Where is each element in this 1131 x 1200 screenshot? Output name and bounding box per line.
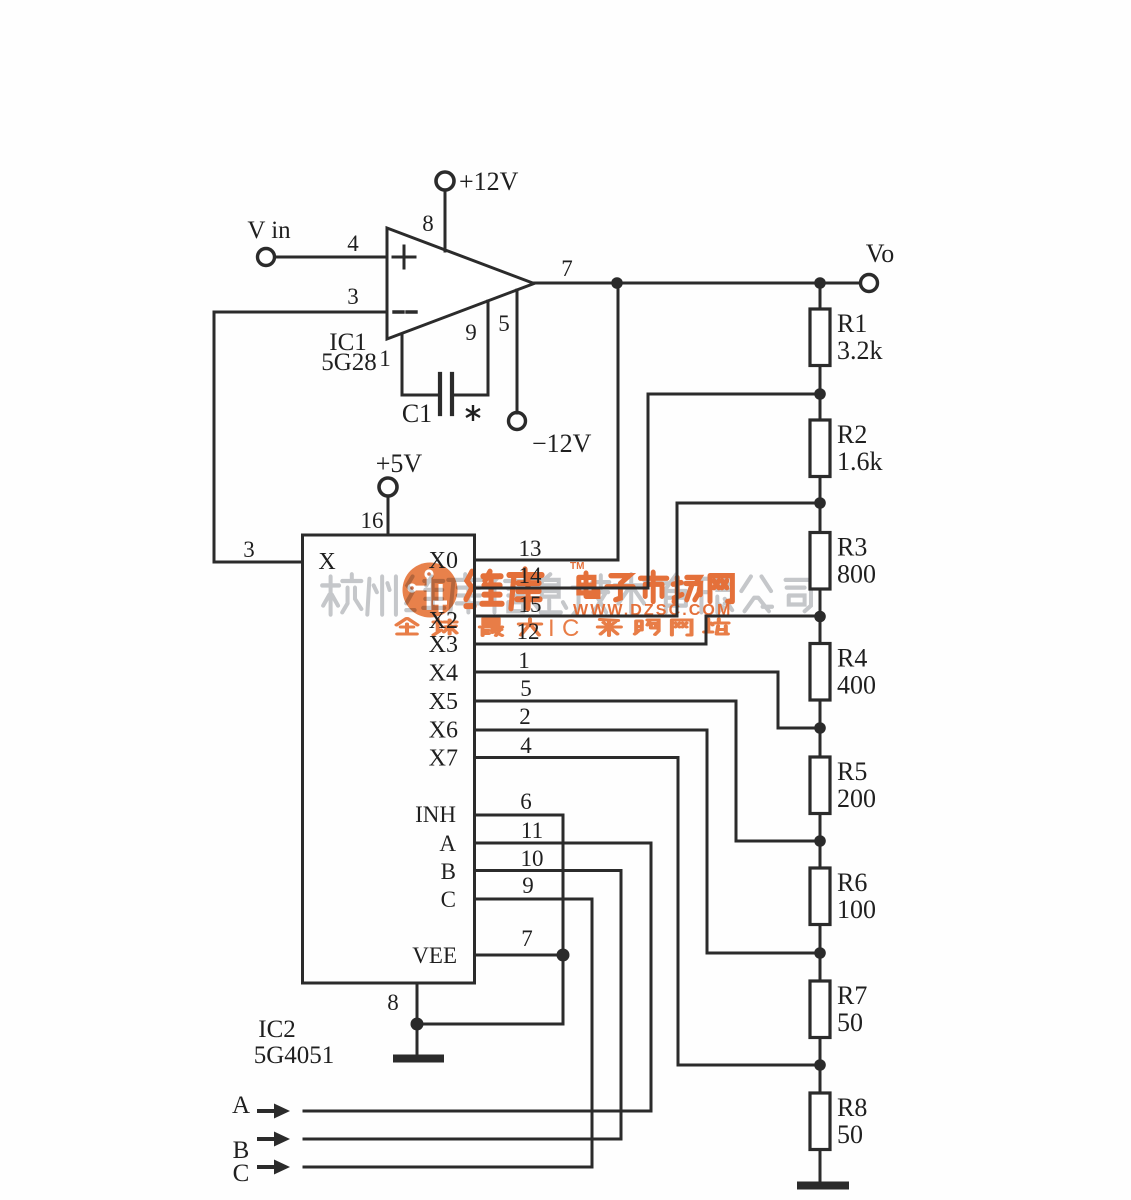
wire X3 pin12 to R3-R4 node (475, 616, 816, 644)
svg-text:3: 3 (347, 284, 359, 309)
svg-text:7: 7 (561, 256, 573, 281)
resistor R8 (810, 1093, 830, 1150)
svg-text:C1: C1 (402, 399, 432, 428)
ground symbol IC2 (397, 1055, 440, 1063)
svg-text:+5V: +5V (376, 449, 423, 478)
terminal -12V (509, 413, 526, 430)
svg-text:5: 5 (498, 311, 510, 336)
svg-text:C: C (441, 887, 456, 912)
wire X4 pin1 to R4-R5 node (475, 672, 816, 728)
svg-text:−12V: −12V (532, 429, 592, 458)
svg-text:TM: TM (570, 561, 584, 572)
svg-text:X2: X2 (429, 608, 458, 634)
svg-text:X5: X5 (429, 689, 458, 715)
wire C pin9 (475, 899, 593, 1167)
svg-text:VEE: VEE (412, 943, 457, 968)
resistor R5 (810, 757, 830, 814)
op-amp inverting minus symbol (394, 310, 416, 313)
wire ground rail horizontal (417, 1023, 563, 1026)
wire B pin10 (475, 871, 622, 1140)
wire X1 pin14 to R1-R2 node (475, 394, 816, 588)
wire X5 pin5 to R5-R6 node (475, 701, 816, 841)
wire C1 to pin9 (454, 301, 488, 395)
svg-text:4: 4 (520, 733, 532, 758)
wire Vin to pin4 (275, 256, 387, 259)
op-amp noninverting plus symbol (393, 246, 415, 268)
svg-text:6: 6 (520, 789, 532, 814)
wire X7 pin4 to R7-R8 node (475, 758, 816, 1066)
svg-text:1: 1 (379, 346, 391, 371)
wire pin1 to C1 (402, 335, 437, 395)
svg-text:R7: R7 (837, 981, 867, 1010)
svg-text:V in: V in (247, 217, 291, 244)
svg-text:10: 10 (521, 846, 544, 871)
multiplexer IC2 5G4051 (303, 535, 475, 983)
node R6-R7 (814, 947, 826, 959)
svg-text:1: 1 (518, 648, 530, 673)
svg-text:+12V: +12V (459, 167, 519, 196)
svg-text:14: 14 (519, 563, 543, 588)
resistor R1 (810, 309, 830, 366)
node R1-R2 (814, 388, 826, 400)
wire ladder backbone (819, 283, 822, 1183)
svg-text:12: 12 (517, 619, 540, 644)
wire C row (304, 1166, 592, 1169)
svg-text:R4: R4 (837, 644, 867, 673)
svg-text:2: 2 (519, 704, 531, 729)
wire pin8 down (416, 983, 419, 1056)
svg-text:5G28: 5G28 (321, 349, 377, 376)
svg-text:Vo: Vo (866, 239, 894, 268)
op-amp IC1 5G28 (387, 228, 534, 339)
node R2-R3 (814, 497, 826, 509)
svg-text:7: 7 (521, 926, 533, 951)
svg-text:X: X (318, 549, 335, 575)
svg-text:1.6k: 1.6k (837, 447, 883, 476)
wire VEE pin7 (475, 954, 564, 957)
capacitor C1 (438, 374, 442, 414)
wire +5V to pin16 (387, 496, 390, 535)
watermark slogan row (397, 615, 729, 642)
svg-text:X7: X7 (429, 746, 458, 772)
svg-text:9: 9 (522, 873, 534, 898)
svg-text:R8: R8 (837, 1093, 867, 1122)
terminal Vo (861, 275, 878, 292)
node R4-R5 (814, 722, 826, 734)
resistor R3 (810, 533, 830, 590)
terminal +5V (379, 478, 397, 496)
terminal +12V (436, 172, 454, 190)
svg-text:15: 15 (519, 592, 542, 617)
svg-text:X3: X3 (429, 632, 458, 658)
input arrow A (259, 1109, 274, 1113)
wire feedback pin3 loop (214, 312, 387, 562)
svg-text:C: C (233, 1160, 250, 1187)
svg-text:11: 11 (521, 818, 543, 843)
wire X0 pin13 to output node (475, 283, 619, 560)
svg-text:4: 4 (347, 231, 359, 256)
svg-text:C: C (562, 615, 579, 642)
resistor R2 (810, 420, 830, 477)
node pin8 ground junction (411, 1018, 424, 1031)
svg-text:R2: R2 (837, 420, 867, 449)
svg-text:9: 9 (465, 320, 477, 345)
svg-text:13: 13 (519, 536, 542, 561)
resistor R6 (810, 868, 830, 925)
svg-text:3.2k: 3.2k (837, 336, 883, 365)
svg-text:8: 8 (422, 211, 434, 236)
node R3-R4 (814, 611, 826, 623)
input arrow C (259, 1165, 274, 1169)
node R7-R8 (814, 1059, 826, 1071)
svg-text:X0: X0 (429, 548, 458, 574)
watermark gray company name (322, 574, 811, 614)
svg-text:800: 800 (837, 560, 876, 589)
watermark orange title (466, 561, 732, 608)
svg-text:8: 8 (387, 990, 399, 1015)
svg-text:X4: X4 (429, 661, 458, 687)
svg-text:400: 400 (837, 671, 876, 700)
wire B row (304, 1138, 621, 1141)
wire INH pin6 to ground rail (475, 815, 564, 1024)
svg-text:3: 3 (243, 537, 255, 562)
resistor R4 (810, 644, 830, 701)
wire op-amp output to Vo (534, 282, 860, 285)
svg-text:16: 16 (361, 508, 384, 533)
node VEE-INH junction (557, 949, 570, 962)
svg-text:INH: INH (415, 802, 456, 827)
wire A pin11 (475, 843, 652, 1111)
svg-text:B: B (441, 859, 456, 884)
terminal V in (258, 249, 275, 266)
ground symbol ladder (801, 1182, 845, 1190)
node output junction (611, 277, 623, 289)
wire +12V to pin8 (444, 190, 447, 251)
node R5-R6 (814, 835, 826, 847)
svg-text:A: A (232, 1092, 250, 1119)
svg-text:50: 50 (837, 1120, 863, 1149)
svg-text:100: 100 (837, 895, 876, 924)
svg-text:A: A (439, 831, 456, 856)
svg-text:5G4051: 5G4051 (254, 1042, 335, 1069)
svg-text:R5: R5 (837, 757, 867, 786)
svg-text:200: 200 (837, 784, 876, 813)
wire pin5 to -12V (516, 290, 519, 413)
svg-text:IC2: IC2 (258, 1016, 296, 1043)
wire X2 pin15 to R2-R3 node (475, 503, 816, 616)
svg-text:X6: X6 (429, 718, 458, 744)
resistor R7 (810, 981, 830, 1038)
C1 star mark (466, 405, 480, 421)
wire X6 pin2 to R6-R7 node (475, 730, 816, 953)
svg-text:R3: R3 (837, 533, 867, 562)
node ladder top (814, 277, 826, 289)
svg-text:R1: R1 (837, 309, 867, 338)
watermark logo disc (403, 563, 458, 618)
svg-text:50: 50 (837, 1008, 863, 1037)
wire A row (304, 1110, 651, 1113)
svg-text:I: I (548, 615, 555, 642)
input arrow B (259, 1137, 274, 1141)
svg-text:R6: R6 (837, 868, 867, 897)
svg-text:5: 5 (520, 676, 532, 701)
